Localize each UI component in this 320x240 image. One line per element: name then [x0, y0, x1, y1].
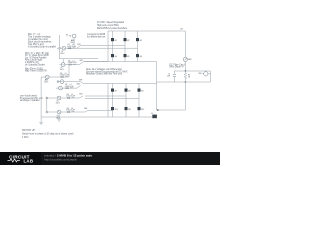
- svg-text:7e-5H: 7e-5H: [64, 75, 68, 77]
- wire: bridge2 phase input upper: [85, 95, 126, 97]
- source V5: [57, 96, 61, 100]
- source V4: [59, 86, 63, 90]
- wire: bridge2 column 3: [138, 84, 140, 118]
- source V1: [62, 46, 66, 50]
- source V6: [57, 110, 61, 114]
- svg-text:24 V: 24 V: [180, 28, 183, 30]
- node B: [185, 81, 186, 82]
- switch SW5: [80, 96, 84, 98]
- svg-text:M7: M7: [115, 90, 117, 92]
- svg-text:7e-5H: 7e-5H: [71, 110, 75, 112]
- note: left lower pole note: [20, 95, 43, 103]
- junction diamond: [58, 47, 60, 49]
- svg-text:R1: R1: [68, 44, 70, 46]
- wire diamond chain: [46, 98, 48, 111]
- svg-text:R2: R2: [68, 61, 70, 63]
- note: top-left winding description: [28, 33, 56, 49]
- wire riser: [68, 65, 70, 78]
- svg-text:L6: L6: [71, 108, 73, 110]
- svg-text:High pole count PMG: High pole count PMG: [97, 24, 119, 27]
- wire: bridge2 phase input lower: [85, 98, 139, 100]
- svg-text:SW4: SW4: [77, 83, 80, 85]
- svg-text:SW1: SW1: [77, 44, 80, 46]
- transistor M4: [111, 54, 114, 57]
- transistor M11: [125, 107, 128, 110]
- inductor L1: [73, 47, 76, 49]
- svg-text:R3: R3: [60, 73, 62, 75]
- svg-text:dir Schottky Diodes: dir Schottky Diodes: [25, 63, 46, 66]
- wire: main bus to loop: [184, 62, 186, 71]
- svg-text:SW5: SW5: [79, 94, 82, 96]
- svg-text:R5: R5: [67, 94, 69, 96]
- svg-text:0 V: 0 V: [151, 113, 153, 115]
- svg-text:Absolute Ground With the Test: Absolute Ground With the Test only: [86, 73, 123, 76]
- wire: bridge1 left edge: [107, 31, 109, 62]
- svg-text:240 V: 240 V: [71, 42, 75, 44]
- wire: [59, 64, 79, 66]
- svg-text:R4: R4: [188, 74, 190, 76]
- svg-text:V2: V2: [61, 67, 63, 69]
- wire: riser to bridge1 bottom: [59, 59, 98, 63]
- node junction: [157, 109, 159, 111]
- junction diamond: [46, 111, 48, 113]
- wire: left drop: [40, 77, 42, 117]
- wire: bridge2 bottom bus: [41, 116, 152, 118]
- wire: [56, 87, 77, 89]
- wire join top bus: [84, 83, 109, 85]
- wire: loop top: [174, 70, 210, 72]
- svg-text:7e-5H: 7e-5H: [71, 96, 75, 98]
- inductor L5: [72, 97, 75, 99]
- junction diamond: [46, 97, 48, 99]
- inductor L3: [65, 76, 68, 78]
- svg-text:VM1: VM1: [199, 73, 202, 75]
- svg-text:L4: L4: [70, 84, 72, 86]
- switch SW6: [85, 110, 88, 112]
- svg-text:240 V: 240 V: [56, 103, 60, 105]
- footer bar: [0, 152, 220, 165]
- svg-text:SW2: SW2: [80, 60, 83, 62]
- svg-text:MVx Diode +/-: MVx Diode +/-: [170, 67, 185, 69]
- resistor R3: [61, 77, 64, 78]
- wire: bridge2 left edge: [107, 84, 109, 118]
- note: DC filter cap: [170, 63, 187, 68]
- wire: bridge1 column 2: [124, 31, 126, 62]
- wire: lower link to main bus: [157, 109, 186, 111]
- svg-text:May Three 0.00007H: May Three 0.00007H: [25, 70, 47, 73]
- inductor L4: [70, 87, 73, 89]
- wire: right return vertical: [156, 62, 158, 111]
- inductor L2: [73, 63, 76, 65]
- wire: [57, 47, 77, 49]
- wire: bridge1 column 3: [137, 31, 139, 62]
- wire: bridge1 top bus: [108, 30, 185, 32]
- svg-text:L2: L2: [73, 61, 75, 63]
- source V2: [61, 63, 65, 67]
- wire: [41, 76, 69, 78]
- wire: [46, 111, 85, 113]
- svg-text:M3: M3: [140, 40, 142, 42]
- switch SW1: [77, 46, 80, 48]
- source circle: [45, 75, 49, 79]
- svg-text:SW6: SW6: [84, 108, 87, 110]
- capacitor C1: [173, 74, 176, 76]
- svg-text:SWITCH UP: SWITCH UP: [22, 130, 35, 132]
- svg-text:windings in parallel: windings in parallel: [20, 99, 40, 102]
- svg-text:R6: R6: [67, 108, 69, 110]
- svg-text:A Schottky Diode in parallel: A Schottky Diode in parallel: [28, 46, 56, 49]
- wire: loop left edge: [173, 71, 175, 82]
- svg-text:M8: M8: [128, 90, 130, 92]
- svg-text:M4: M4: [115, 56, 117, 58]
- svg-text:L1: L1: [72, 44, 74, 46]
- svg-text:M6: M6: [140, 56, 142, 58]
- wire to bridge2: [88, 110, 113, 112]
- note: title 24VDC regulator: [97, 21, 128, 30]
- svg-text:24 VDC, Speed Regulated: 24 VDC, Speed Regulated: [97, 21, 125, 24]
- transistor M10: [111, 107, 114, 110]
- svg-text:http://circuitlab.com/czepdv: http://circuitlab.com/czepdv: [44, 157, 77, 161]
- svg-text:M2: M2: [127, 40, 129, 42]
- svg-text:L5: L5: [71, 94, 73, 96]
- svg-text:M10: M10: [115, 109, 118, 111]
- inductor L6: [72, 111, 75, 113]
- ground at left drop: [39, 117, 43, 125]
- junction diamond: [57, 80, 59, 82]
- transistor M8: [125, 89, 128, 92]
- svg-text:1mF: 1mF: [167, 76, 170, 78]
- svg-text:240 V: 240 V: [60, 69, 64, 71]
- transistor M2: [124, 38, 127, 41]
- svg-text:7e-5H: 7e-5H: [72, 62, 76, 64]
- transistor M5: [124, 54, 127, 57]
- resistor R4 phase: [66, 88, 69, 89]
- svg-text:M12: M12: [141, 109, 144, 111]
- wire: return to loop bottom: [157, 81, 175, 83]
- wire: loop right edge: [210, 71, 212, 82]
- svg-text:jminsky / 2 MVB 8 to 12 pulse: jminsky / 2 MVB 8 to 12 pulse auto: [43, 154, 92, 158]
- ground under V6: [57, 114, 61, 121]
- wire to bottom bus: [83, 61, 108, 63]
- source V3: [60, 80, 64, 84]
- svg-text:M5: M5: [127, 56, 129, 58]
- svg-text:M9: M9: [141, 90, 143, 92]
- resistor R4: [184, 71, 186, 82]
- voltmeter VM1: [204, 72, 208, 76]
- wire: bridge1 phase input upper: [80, 45, 125, 47]
- wire: bridge1 column 1: [112, 31, 114, 62]
- note: bottom switch note: [22, 130, 74, 139]
- transistor M6: [136, 54, 139, 57]
- wire: main bus down from top: [184, 31, 186, 57]
- wire: main bus lower: [184, 82, 186, 110]
- wire: bridge2 top bus: [108, 83, 157, 85]
- note: connect 2 MVB: [87, 33, 106, 38]
- svg-text:for differential use: for differential use: [87, 36, 106, 39]
- switch SW2: [80, 62, 84, 65]
- wire: bridge1 bottom bus: [84, 61, 157, 63]
- svg-text:V6: V6: [57, 116, 59, 118]
- svg-text:4 MVx: 4 MVx: [22, 137, 29, 139]
- transistor M1: [111, 38, 114, 41]
- wire: bridge1 phase input lower: [59, 47, 137, 49]
- wire: bridge2 column 1: [112, 84, 114, 118]
- ammeter AM1: [183, 57, 187, 61]
- svg-text:M11: M11: [128, 109, 131, 111]
- svg-text:SW3: SW3: [79, 80, 82, 82]
- meter AM3 top: [72, 34, 76, 38]
- svg-text:Multi-MVB 12 pulse Rectifiers: Multi-MVB 12 pulse Rectifiers: [97, 27, 128, 30]
- wire: bridge2 column 2: [125, 84, 127, 118]
- svg-text:R4: R4: [65, 84, 67, 86]
- switch SW3: [80, 82, 84, 84]
- note: left-middle MVx description: [25, 52, 49, 73]
- note: grounding note: [86, 68, 128, 75]
- svg-text:V5: V5: [57, 101, 59, 103]
- svg-text:Switch lever in phase to 30 de: Switch lever in phase to 30 deg out of p…: [22, 132, 74, 135]
- svg-text:7e-5H: 7e-5H: [72, 46, 76, 48]
- node A: [185, 70, 186, 71]
- svg-text:M1: M1: [115, 40, 117, 42]
- transistor M3: [136, 38, 139, 41]
- transistor M9: [138, 89, 141, 92]
- svg-text:L3: L3: [65, 73, 67, 75]
- svg-text:7e-5H: 7e-5H: [69, 86, 73, 88]
- transistor M12: [138, 107, 141, 110]
- switch SW4: [77, 85, 81, 88]
- svg-text:LAB: LAB: [24, 158, 34, 163]
- resistor R2: [69, 64, 72, 65]
- label 0V at bottom bus end: [152, 115, 157, 119]
- svg-text:V1: V1: [62, 51, 64, 53]
- transistor M7: [111, 89, 114, 92]
- resistor R6: [67, 112, 70, 113]
- svg-text:240 V: 240 V: [44, 82, 48, 84]
- wire: [46, 97, 80, 99]
- wire: left riser: [58, 35, 60, 59]
- wire: loop bottom: [174, 81, 210, 83]
- resistor R5: [67, 98, 70, 99]
- svg-text:C1: C1: [168, 74, 170, 76]
- resistor R1: [68, 48, 71, 49]
- wire: [57, 81, 80, 83]
- svg-text:240 V: 240 V: [61, 53, 65, 55]
